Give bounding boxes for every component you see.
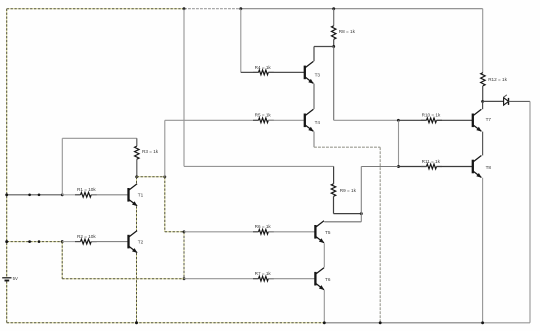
wire left rail upper (dashed current): [6, 9, 8, 277]
wire T8 emitter to bottom rail: [482, 178, 484, 323]
wire R4 line: [241, 71, 259, 73]
transistor T6: [314, 272, 316, 286]
svg-text:T4: T4: [315, 120, 321, 125]
wire battery minus feed (dashed current): [62, 278, 184, 280]
wire R6 node down (dashed current): [183, 232, 185, 279]
svg-text:R12 = 1k: R12 = 1k: [488, 77, 507, 82]
wire R3 top stub: [136, 138, 138, 146]
node R12 / diode / T7 junction: [481, 100, 484, 103]
svg-text:5V: 5V: [13, 276, 18, 281]
node R8 junction: [332, 45, 335, 48]
switch S1 post 2: [38, 193, 41, 196]
wire R5 to T4 base: [268, 119, 305, 121]
wire rail drop x184: [183, 9, 185, 167]
svg-text:R6 = 1k: R6 = 1k: [255, 224, 272, 229]
wire to R6 node (dashed current): [165, 231, 184, 233]
wire R11 line left: [361, 166, 398, 168]
switch S1 post 1: [28, 193, 31, 196]
transistor T1: [127, 188, 129, 202]
transistor T5: [314, 225, 316, 239]
wire left rail lower (dashed current): [6, 281, 8, 323]
node R6 junction: [183, 230, 186, 233]
node top rail junction C: [332, 7, 335, 10]
resistor R10: [421, 119, 427, 121]
switch S2 post 1: [28, 240, 31, 243]
wire R5 line: [165, 119, 259, 121]
svg-text:T1: T1: [138, 193, 144, 198]
node top rail junction A: [183, 7, 186, 10]
node junction left rail / input A: [5, 193, 8, 196]
wire diode anode: [483, 100, 504, 102]
resistor R6: [253, 231, 259, 233]
wire top rail segment: [184, 8, 241, 10]
resistor R8: [331, 26, 336, 40]
node junction left rail / input B: [5, 240, 8, 243]
svg-text:R8 = 1k: R8 = 1k: [339, 29, 356, 34]
svg-text:R7 = 1k: R7 = 1k: [255, 271, 272, 276]
wire input A from rail: [7, 194, 63, 196]
wire rail drop x240: [240, 9, 242, 73]
svg-text:R11 = 1k: R11 = 1k: [422, 159, 441, 164]
wire R11 to T8 base: [437, 166, 473, 168]
wire T3 collector stub: [313, 47, 315, 62]
svg-text:T8: T8: [486, 165, 492, 170]
wire right edge drop: [529, 101, 531, 322]
wire top rail (battery + , dashed current): [7, 8, 184, 10]
resistor R1: [75, 194, 81, 196]
svg-text:T5: T5: [325, 230, 331, 235]
wire bottom rail (dashed current): [7, 322, 325, 324]
wire R8 node down: [333, 47, 335, 121]
svg-text:R3 = 1k: R3 = 1k: [142, 149, 159, 154]
wire right rail top: [482, 9, 484, 73]
resistor R5: [253, 119, 259, 121]
wire R9 bottom to node F: [334, 213, 362, 215]
resistor R12: [481, 73, 486, 86]
wire T4 emitter horizontal (faint current): [314, 146, 380, 148]
wire T5 emitter to T6 collector: [323, 243, 325, 267]
node R7 junction: [183, 277, 186, 280]
transistor T8: [472, 160, 474, 174]
svg-text:R9 = 1k: R9 = 1k: [340, 188, 357, 193]
svg-text:R2 = 10k: R2 = 10k: [77, 234, 96, 239]
node junction R3 / T1 collector: [135, 175, 138, 178]
node top rail junction B: [239, 7, 242, 10]
wire T4 emitter drop to bottom (faint current): [379, 147, 381, 323]
resistor R3: [135, 146, 140, 159]
svg-text:R1 = 10k: R1 = 10k: [77, 187, 96, 192]
wire input B from rail (dashed current): [7, 241, 63, 243]
wire node F drop: [360, 167, 362, 222]
wire R8 node to T3 collector: [314, 46, 334, 48]
svg-text:T2: T2: [138, 239, 144, 244]
node T8 emitter / bottom rail: [481, 321, 484, 324]
resistor R9: [331, 184, 336, 197]
transistor T7: [472, 114, 474, 128]
wire bottom rail solid: [324, 322, 482, 324]
wire input A to R1: [62, 194, 80, 196]
node R11 junction: [397, 165, 400, 168]
wire input A riser: [61, 138, 63, 195]
switch S2 post 2: [38, 240, 41, 243]
wire R6 line: [184, 231, 259, 233]
wire T7 collector stub: [482, 101, 484, 109]
wire R9 top stub: [333, 166, 335, 183]
wire T4 emitter stub: [313, 132, 315, 148]
node junction R3 riser / input A: [61, 193, 64, 196]
wire T1 emitter to T2 collector (dashed current): [136, 206, 138, 230]
svg-text:R10 = 1k: R10 = 1k: [422, 113, 441, 118]
wire T7 emitter to T8 collector: [482, 132, 484, 156]
node junction input B: [61, 240, 64, 243]
wire input B drop (dashed current): [61, 242, 63, 279]
wire R9 bottom stub: [333, 196, 335, 213]
battery 5V plate -: [5, 280, 10, 282]
wire R3-node to node E (dashed current): [137, 176, 165, 178]
wire R8 bottom stub: [333, 39, 335, 46]
wire R4 to T3 base: [268, 71, 305, 73]
wire T2 emitter to bottom rail (dashed current): [136, 253, 138, 323]
svg-text:T6: T6: [325, 277, 331, 282]
svg-text:R4 = 1k: R4 = 1k: [255, 65, 272, 70]
wire R3 top horizontal: [62, 137, 137, 139]
transistor T3: [304, 66, 306, 80]
wire R10 node down: [398, 120, 400, 166]
wire R12 bottom stub: [482, 86, 484, 102]
node R10 junction: [397, 119, 400, 122]
node T6 emitter / bottom rail: [323, 321, 326, 324]
svg-text:T7: T7: [486, 117, 492, 122]
wire top rail right: [241, 8, 483, 10]
wire R2 to T2 base: [91, 241, 128, 243]
wire R7 to T6 base: [268, 278, 315, 280]
wire R10 to T7 base: [437, 119, 473, 121]
wire T5 collector link: [324, 221, 361, 223]
wire R6 to T5 base: [268, 231, 315, 233]
wire T6 emitter to bottom rail: [323, 290, 325, 323]
wire T3 emitter to T4 collector: [313, 84, 315, 110]
node T2 emitter / bottom rail: [135, 321, 138, 324]
transistor T2: [127, 235, 129, 249]
svg-text:R5 = 1k: R5 = 1k: [255, 113, 272, 118]
wire T1 collector stub (dashed current): [136, 177, 138, 184]
resistor R2: [75, 241, 81, 243]
wire R10 line: [399, 119, 427, 121]
battery 5V plate +: [2, 277, 11, 279]
wire R7 line: [184, 278, 259, 280]
wire R1 to T1 base: [91, 194, 128, 196]
diode D1: [504, 98, 509, 105]
wire node E down (dashed current): [164, 177, 166, 232]
node F junction: [360, 212, 363, 215]
transistor T4: [304, 114, 306, 128]
wire diode cathode: [509, 100, 531, 102]
wire input B to R2: [62, 241, 80, 243]
wire R8 top stub: [333, 9, 335, 26]
wire to R10 node: [334, 119, 399, 121]
wire R11 line: [399, 166, 427, 168]
wire R3 bottom stub: [136, 159, 138, 177]
wire to R9 top: [184, 165, 334, 167]
resistor R7: [253, 278, 259, 280]
resistor R4: [253, 71, 259, 73]
svg-text:T3: T3: [315, 72, 321, 77]
node E junction: [163, 175, 166, 178]
node T4 emitter / bottom rail: [379, 321, 382, 324]
wire bottom rail right: [483, 322, 530, 324]
resistor R11: [421, 166, 427, 168]
wire node E riser: [164, 120, 166, 177]
